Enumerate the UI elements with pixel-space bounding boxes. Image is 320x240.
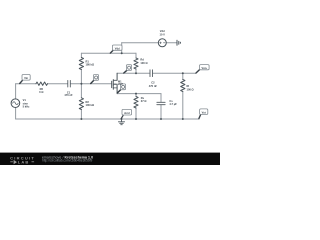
ground Jord bottom <box>118 119 124 125</box>
node gate junction dot <box>80 83 82 85</box>
node RL ground junction dot <box>182 118 184 120</box>
svg-text:470 nF: 470 nF <box>149 84 158 88</box>
label C1 value <box>64 90 73 97</box>
svg-text:100 kΩ: 100 kΩ <box>86 103 95 107</box>
svg-text:LAB: LAB <box>18 159 30 164</box>
svg-text:Jord: Jord <box>124 111 130 115</box>
wire drain row with C2 gap <box>117 72 196 74</box>
svg-text:10 V: 10 V <box>160 32 166 36</box>
resistor R2 <box>79 98 83 110</box>
label Cs value <box>169 99 177 106</box>
svg-text:C2: C2 <box>151 80 155 84</box>
label C2 value <box>149 80 158 87</box>
node RL top junction dot <box>182 72 184 74</box>
label R6 value <box>39 87 43 94</box>
wire M1 drain lead <box>116 73 118 80</box>
flag Jord <box>121 109 131 118</box>
probe on drain wire <box>124 65 132 73</box>
probe on source lead <box>117 84 125 93</box>
wire V1 left column <box>15 84 17 119</box>
wire Rs column <box>135 94 137 119</box>
node Vdd column junction dot <box>121 52 123 54</box>
flag Vdd <box>110 45 122 53</box>
wire M1 source lead <box>116 84 118 93</box>
transistor M1 NMOS <box>112 80 117 90</box>
svg-text:Rd: Rd <box>140 58 144 62</box>
node Cs ground junction dot <box>160 118 162 120</box>
resistor Rs <box>134 97 138 109</box>
wire source row <box>117 93 161 95</box>
wire Cs column <box>160 94 162 119</box>
node ground attach junction dot <box>121 118 123 120</box>
resistor RL <box>181 80 185 92</box>
svg-text:180 kΩ: 180 kΩ <box>86 63 95 67</box>
flag Vin <box>20 75 31 84</box>
node R2 ground junction dot <box>80 118 82 120</box>
wire Vdd source leads <box>122 42 177 44</box>
svg-text:Vut+: Vut+ <box>201 66 207 70</box>
svg-text:4.7 μF: 4.7 μF <box>169 102 177 106</box>
flag Vut+ top right <box>196 65 209 73</box>
voltage source V2 Vdd <box>158 39 166 47</box>
label V1 value <box>23 98 30 108</box>
svg-text:5 kHz: 5 kHz <box>23 105 30 109</box>
svg-text:27 Ω: 27 Ω <box>141 99 147 103</box>
wire R2 column <box>80 84 82 119</box>
wire R1 column <box>80 53 82 83</box>
voltage source V1 <box>11 99 20 108</box>
svg-text:http://circuitlab.com/c6bb46e3: http://circuitlab.com/c6bb46e3b5bf9 <box>42 159 93 163</box>
label Rd value <box>140 58 147 65</box>
capacitor Cs <box>157 102 165 104</box>
resistor R6 <box>36 82 48 85</box>
label Rs value <box>141 96 147 103</box>
svg-text:100 Ω: 100 Ω <box>140 61 147 65</box>
node Rs ground junction dot <box>135 118 137 120</box>
watermark CircuitLab logo <box>10 155 35 164</box>
ground right of Vdd source <box>177 40 180 45</box>
label M1 value <box>118 79 123 86</box>
node drain Rd junction dot <box>135 72 137 74</box>
svg-text:470 nF: 470 nF <box>64 93 73 97</box>
label R2 value <box>86 100 95 107</box>
wire Vdd source column <box>121 43 123 54</box>
probe on gate wire <box>91 75 99 84</box>
wire Rd column <box>135 53 137 73</box>
capacitor C1 <box>68 80 71 87</box>
node Rs top junction dot <box>135 93 137 95</box>
label RL value <box>187 84 194 91</box>
svg-text:Vdd: Vdd <box>115 46 120 50</box>
label Vdd source value <box>160 29 166 36</box>
label R1 value <box>86 59 95 66</box>
svg-text:Vut: Vut <box>202 110 206 114</box>
svg-text:2N7: 2N7 <box>118 82 123 86</box>
wire RL column <box>182 73 184 119</box>
resistor Rd <box>134 58 138 69</box>
flag Vut bottom right <box>199 109 208 119</box>
svg-text:Vin: Vin <box>24 76 28 80</box>
wire ground rail bottom <box>16 118 199 120</box>
resistor R1 <box>79 58 83 70</box>
watermark bar <box>0 153 220 165</box>
capacitor C2 <box>150 70 153 77</box>
svg-text:100 Ω: 100 Ω <box>187 87 194 91</box>
svg-text:R1: R1 <box>86 59 90 63</box>
svg-text:0 Ω: 0 Ω <box>39 90 43 94</box>
wire top Vdd row <box>81 52 136 54</box>
wire Vin row from V1 top corner to gate <box>16 83 112 85</box>
